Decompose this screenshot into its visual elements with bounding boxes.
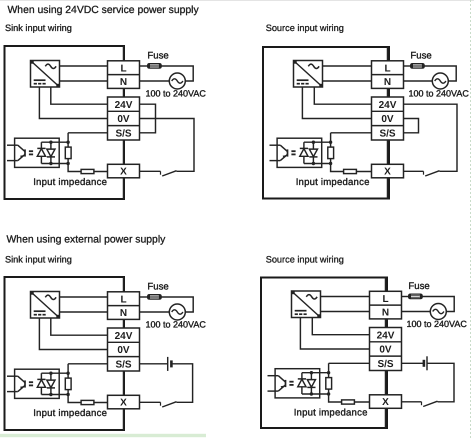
terminal block L/N [108, 61, 140, 89]
switch S2 [424, 171, 440, 176]
wire: S/S to optocoupler [329, 362, 370, 364]
terminal block 24V/0V/S-S [108, 97, 140, 140]
wire: PSU to N [60, 80, 108, 82]
power supply PSU3 [31, 292, 60, 319]
wire: top edge to L [123, 46, 125, 61]
wire: battery to switch [171, 364, 192, 403]
wire: X to switch [140, 401, 161, 403]
wire: X to bottom edge [123, 178, 125, 199]
svg-text:Source input wiring: Source input wiring [266, 254, 344, 264]
terminal block 24V/0V/S-S [370, 328, 402, 371]
PLC enclosure box [263, 47, 389, 199]
wire: S/S to battery [140, 363, 168, 365]
wire: PSU to N [323, 80, 372, 82]
wire: PSU to N [60, 311, 108, 313]
svg-text:Sink input wiring: Sink input wiring [5, 23, 72, 33]
power supply PSU2 [294, 61, 323, 88]
switch S1 [161, 171, 177, 176]
optocoupler + resistors cluster [7, 133, 110, 188]
wire: N to 24V [387, 88, 389, 97]
battery B2 positive plate [426, 356, 428, 370]
wire: PSU to L [60, 296, 108, 298]
wire: PSU to L [60, 65, 108, 67]
wire: S/S to optocoupler [68, 363, 107, 365]
wire: X to bottom edge [385, 408, 387, 428]
wire: PSU - to 0V [39, 87, 107, 119]
terminal X [370, 395, 402, 409]
PLC enclosure box [261, 278, 387, 429]
optocoupler + resistors cluster [7, 364, 110, 419]
fuse + AC source [140, 282, 207, 330]
terminal block L/N [372, 61, 404, 89]
PLC enclosure box [5, 46, 125, 199]
wire: 24V to S/S bracket [140, 104, 156, 133]
svg-text:Source input wiring: Source input wiring [266, 23, 344, 33]
terminal block 24V/0V/S-S [372, 97, 404, 140]
battery B1 positive plate [167, 357, 169, 371]
wire: X to bottom edge [123, 409, 125, 430]
power supply PSU4 [292, 291, 321, 318]
wire: S/S to battery [402, 362, 424, 364]
switch S4 [422, 401, 438, 406]
wire: PSU to N [321, 311, 370, 313]
wire: PSU + to 24V [312, 318, 369, 335]
wire: X to switch [402, 401, 422, 403]
svg-text:Sink input wiring: Sink input wiring [5, 254, 72, 264]
wire: PSU to L [321, 296, 370, 298]
fuse + AC source [140, 51, 207, 99]
wire: PSU - to 0V [39, 318, 107, 350]
wire: battery to switch [427, 363, 454, 402]
wire: S/S to optocoupler [331, 132, 372, 134]
terminal X [108, 164, 140, 178]
wire: S/S to X [123, 140, 125, 164]
wire: N to 24V [123, 319, 125, 328]
power supply PSU1 [31, 61, 60, 88]
terminal block L/N [370, 291, 402, 319]
fuse + AC source [403, 51, 470, 99]
terminal X [372, 164, 404, 178]
wire: PSU + to 24V [314, 87, 371, 104]
wire: S/S to X [123, 371, 125, 395]
optocoupler + resistors cluster [268, 363, 371, 418]
wire: N to 24V [385, 319, 387, 328]
wire: X to switch [140, 170, 161, 172]
wire: S/S to optocoupler [68, 132, 107, 134]
wire: X to bottom edge [387, 178, 389, 199]
wire: top edge to L [123, 277, 125, 292]
optocoupler + resistors cluster [270, 133, 373, 188]
wire: top edge to L [385, 278, 387, 292]
battery B2 negative plate [423, 360, 426, 367]
wire: PSU + to 24V [51, 318, 108, 335]
wire: S/S to X [387, 140, 389, 164]
wire: S/S to X [385, 371, 387, 395]
terminal X [108, 395, 140, 409]
wire: top edge to L [387, 47, 389, 61]
terminal block 24V/0V/S-S [108, 328, 140, 371]
wire: PSU - to 0V [300, 318, 369, 350]
wire: 24V to switch [404, 104, 458, 171]
battery B1 negative plate [170, 360, 173, 367]
wire: X to switch [404, 170, 424, 172]
terminal block L/N [108, 292, 140, 320]
switch S3 [161, 402, 177, 407]
wire: PSU - to 0V [302, 87, 371, 119]
wire: 0V to switch [140, 119, 195, 172]
page edge shading [0, 0, 474, 2]
wire: PSU + to 24V [51, 87, 108, 104]
PLC enclosure box [5, 277, 125, 430]
wire: PSU to L [323, 65, 372, 67]
svg-text:When using 24VDC service power: When using 24VDC service power supply [8, 5, 200, 16]
wire: 0V to S/S bracket [404, 119, 419, 133]
svg-text:When using external power supp: When using external power supply [7, 234, 167, 245]
wire: N to 24V [123, 88, 125, 97]
fuse + AC source [401, 281, 468, 329]
